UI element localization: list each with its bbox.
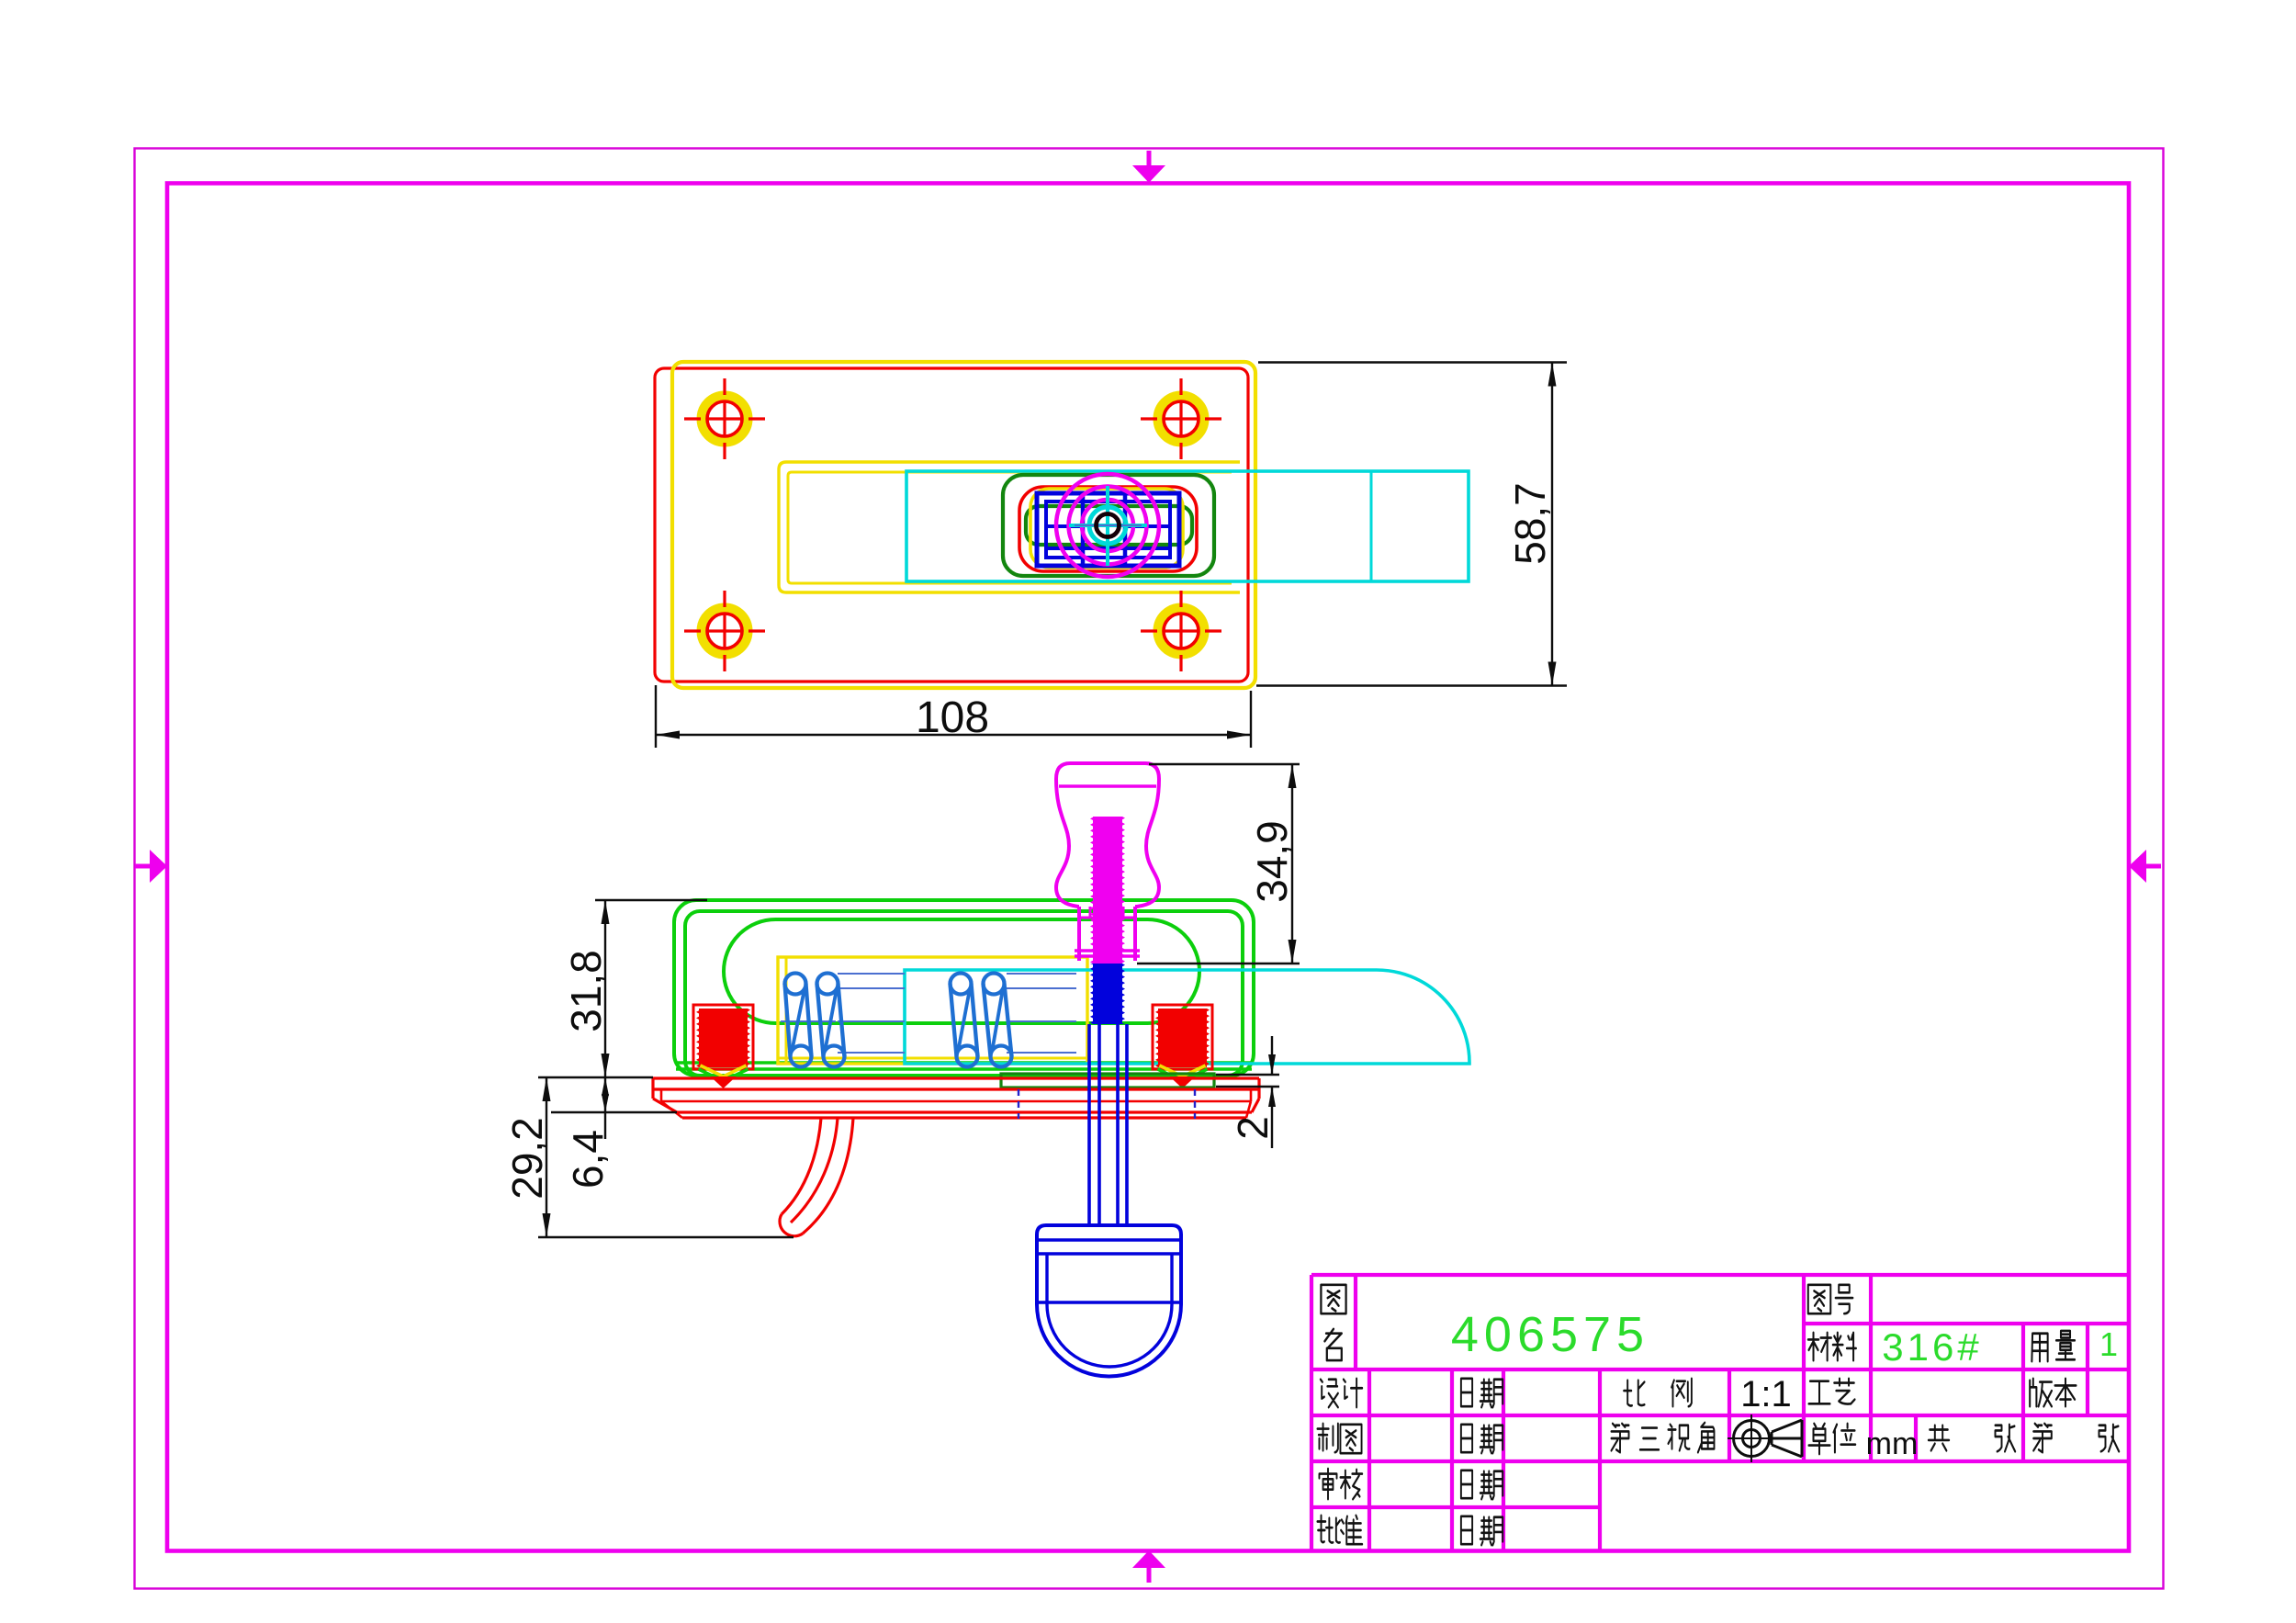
svg-text:1:1: 1:1: [1740, 1374, 1792, 1414]
svg-text:mm: mm: [1866, 1426, 1919, 1461]
svg-text:316#: 316#: [1882, 1325, 1982, 1369]
svg-text:31,8: 31,8: [562, 950, 610, 1032]
svg-text:108: 108: [916, 693, 989, 742]
svg-text:406575: 406575: [1451, 1307, 1649, 1362]
svg-text:58,7: 58,7: [1506, 482, 1554, 565]
svg-text:2: 2: [1229, 1116, 1277, 1140]
svg-text:1: 1: [2099, 1325, 2118, 1363]
svg-text:34,9: 34,9: [1248, 820, 1296, 903]
svg-text:29,2: 29,2: [503, 1117, 551, 1200]
svg-text:6,4: 6,4: [564, 1130, 612, 1189]
